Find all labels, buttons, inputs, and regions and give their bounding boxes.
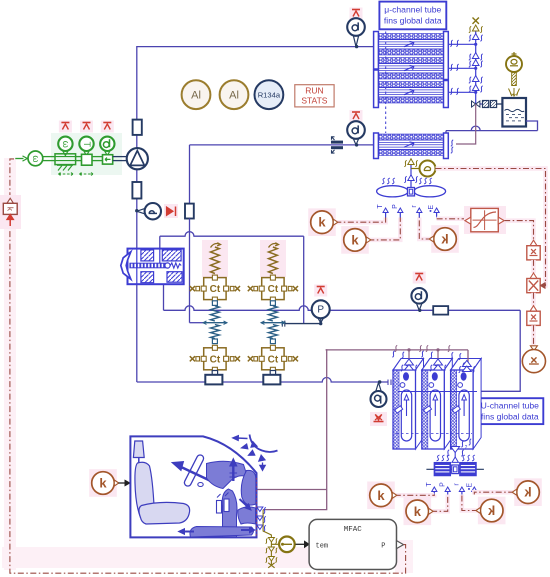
svg-text:Al: Al <box>229 89 239 101</box>
aluminium property circle 2 <box>220 80 249 109</box>
condenser core segments <box>378 34 443 104</box>
subcooler headers <box>374 133 449 159</box>
svg-text:k: k <box>441 232 449 247</box>
wire chain 2-3 <box>531 293 536 306</box>
flexible coupling <box>483 101 511 108</box>
svg-text:tem: tem <box>316 543 329 551</box>
svg-text:k: k <box>351 232 359 247</box>
svg-text:ω: ω <box>31 155 41 162</box>
tank outlet pipe <box>446 121 538 133</box>
signal box duplicate 1 <box>527 240 540 260</box>
svg-text:R134a: R134a <box>258 91 281 100</box>
thermal capacity Ct lower-right <box>248 345 298 372</box>
evaporator plate 3 <box>451 359 482 450</box>
svg-text:Ct: Ct <box>210 284 221 295</box>
svg-text:Ct: Ct <box>268 284 279 295</box>
svg-text:P: P <box>440 482 447 487</box>
svg-text:k: k <box>524 485 532 500</box>
condenser right downcomer <box>475 31 477 105</box>
cabin outlet diffusers <box>254 507 266 532</box>
heat-flow spring right <box>269 243 279 274</box>
fan port labels <box>377 204 435 212</box>
cabin temperature sensor chain <box>263 510 279 568</box>
rotary gauge T <box>79 121 93 156</box>
svg-text:P: P <box>317 304 324 315</box>
gain k blower-E <box>474 478 542 506</box>
evaporator plate 1 <box>393 359 424 450</box>
anchor right <box>263 371 280 385</box>
aluminium property circle 1 <box>182 80 211 109</box>
svg-text:RUN: RUN <box>305 86 323 96</box>
condenser 4th segment (subcooler) <box>378 134 443 156</box>
svg-text:STATS: STATS <box>301 96 327 106</box>
rear vent arrow <box>241 527 255 533</box>
check valve V1 discharge <box>133 120 142 135</box>
svg-text:•E: •E <box>428 205 435 212</box>
torque sensor box <box>76 154 92 165</box>
svg-text:T: T <box>82 142 92 148</box>
temperature probe <box>279 537 295 553</box>
shaft displacement arrows <box>59 172 94 176</box>
wire TXV-body to evaporator wall y=382 <box>137 284 394 385</box>
svg-text:P: P <box>381 543 385 551</box>
thermal capacity Ct upper-right <box>248 275 298 302</box>
svg-text:k: k <box>377 488 385 503</box>
receiver tank <box>502 98 526 127</box>
gain k fan-r <box>419 218 459 253</box>
compressor <box>127 148 148 169</box>
blower input arrows <box>432 487 477 495</box>
compressor speed limiter box <box>0 195 21 229</box>
wire P-gauge tap <box>282 321 322 327</box>
gain k blower-P <box>404 495 448 526</box>
shaft omega to bearing <box>43 157 55 161</box>
evaporator label box <box>476 398 543 424</box>
speed source omega <box>28 151 43 166</box>
flow gauge suction q <box>411 272 427 312</box>
svg-text:T: T <box>426 482 433 487</box>
fan motor sensor <box>420 161 436 177</box>
MFAC controller block <box>309 519 403 569</box>
spring-damper right <box>261 301 285 344</box>
condenser label box <box>379 2 446 30</box>
condenser right header <box>444 32 449 108</box>
svg-text:Ct: Ct <box>268 354 279 365</box>
speed demand arrow <box>15 156 27 161</box>
wire compressor suction segment <box>135 169 138 248</box>
steering wheel <box>183 454 204 487</box>
gain k blower-r <box>462 495 506 525</box>
svg-text:U-channel tube: U-channel tube <box>481 400 540 410</box>
svg-text:•E: •E <box>466 483 473 490</box>
cabin seat back <box>135 462 155 517</box>
dashboard body <box>190 461 256 537</box>
evaporator plate 2 <box>422 359 453 450</box>
air inlet cross top <box>469 18 483 33</box>
evaporator air outlet to blower <box>447 447 464 463</box>
svg-text:MFAC: MFAC <box>344 526 363 534</box>
svg-text:μ-channel tube: μ-channel tube <box>384 5 441 15</box>
expansion signal node <box>522 346 545 373</box>
run stats box <box>295 85 334 107</box>
gain k fan-T <box>308 208 385 236</box>
evaporator tie lines <box>396 392 477 434</box>
thermal capacity Ct upper-left <box>190 275 240 302</box>
bearing block <box>55 154 76 171</box>
gain k fan-P <box>341 218 400 254</box>
wire TXV sensor down to damper link <box>190 219 205 323</box>
wire fan-motor feedback <box>436 169 546 289</box>
wire chain 3-circle <box>531 325 536 346</box>
rotary gauge omega <box>58 121 72 156</box>
pressure gauge P evaporator <box>312 285 330 324</box>
humidity gauge evaporator <box>370 383 387 427</box>
pressure gauge liquid line <box>347 110 365 145</box>
heat-flow spring left <box>211 243 221 274</box>
highlight springs <box>202 240 286 277</box>
wire table to chain <box>504 221 533 241</box>
shaft to compressor <box>113 157 128 161</box>
svg-text:ω: ω <box>61 141 71 148</box>
TXV spool valve block <box>121 249 184 285</box>
wire fan-E to table <box>437 217 465 222</box>
dashboard vent arrow up <box>230 459 238 482</box>
wire chain 1-2 <box>531 260 536 273</box>
pressure gauge top (discharge) <box>347 8 365 47</box>
subcooler bypass line (brown) <box>451 104 476 153</box>
svg-text:Ct: Ct <box>210 354 221 365</box>
condenser internal moist-air dashed line <box>385 32 387 134</box>
fan riser with valves <box>404 159 419 188</box>
cabin right edge dotted <box>256 478 258 536</box>
expansion valve sensor block <box>185 204 194 219</box>
cabin return air riser <box>257 350 327 510</box>
fan input arrows <box>383 208 439 218</box>
air valve triangles on downcomer <box>469 34 483 93</box>
condenser fan blades <box>377 186 446 197</box>
gain k blower-T <box>367 482 434 510</box>
probe to MFAC arrow <box>296 541 310 547</box>
pipe union symbol on liquid line <box>331 137 343 153</box>
spring-damper left <box>203 301 227 344</box>
highlight mint behind shaft train <box>51 133 122 175</box>
feedback wire MFAC to speed control <box>10 159 406 573</box>
defroster spray <box>233 435 278 471</box>
steering column arrow <box>172 462 223 487</box>
lookup table f(x) <box>464 206 506 234</box>
highlight band bottom feedback wire <box>2 158 413 573</box>
refrigerant R134a circle <box>255 80 284 109</box>
check valve V2 suction <box>132 182 141 199</box>
svg-text:P: P <box>392 204 399 209</box>
wire block-top to riser y=236 <box>160 232 304 324</box>
svg-text:fins global data: fins global data <box>384 16 442 26</box>
svg-text:T: T <box>377 204 384 209</box>
evaporator air supply line <box>326 345 468 366</box>
wire compressor top to valve <box>136 135 138 149</box>
evap plate top marks <box>392 351 461 360</box>
console vents <box>217 493 230 514</box>
blower <box>426 455 484 476</box>
foot vent arrow <box>240 499 252 510</box>
cabin seat base <box>139 502 190 524</box>
thermal capacity Ct lower-left <box>190 345 240 372</box>
wire compressor discharge up and across top <box>137 45 374 120</box>
plate1 air inlet valve <box>401 359 417 371</box>
fan draft marks <box>382 178 432 184</box>
signal box duplicate 2 <box>527 306 540 326</box>
floor return arrow <box>179 529 195 535</box>
svg-text:k: k <box>99 476 107 491</box>
rotary gauge q <box>100 121 114 156</box>
cabin shell <box>130 436 256 537</box>
cabin gain k <box>89 469 130 497</box>
evap plate bottom marks <box>461 439 471 451</box>
enthalpy sensor suction <box>137 203 178 219</box>
plate2 air inlet valve <box>430 359 446 371</box>
plate3 air inlet valve <box>459 361 475 373</box>
orifice on suction line <box>433 306 448 315</box>
signal box multiply <box>527 273 540 293</box>
svg-text:k: k <box>318 215 326 230</box>
tank level gauge <box>506 52 522 96</box>
svg-text:Al: Al <box>191 89 201 101</box>
blower port labels <box>426 482 474 490</box>
svg-text:2: 2 <box>465 445 468 451</box>
wire condenser outlet to TXV (y=145) <box>190 143 374 203</box>
cabin headrest <box>133 441 144 463</box>
anchor left <box>205 371 222 385</box>
svg-text:fins global data: fins global data <box>481 411 539 421</box>
condenser left header <box>374 32 379 108</box>
svg-text:k: k <box>414 504 422 519</box>
speed sensor box <box>92 155 113 164</box>
condenser right-side air links <box>448 40 477 94</box>
tank inlet pipe <box>472 101 482 107</box>
wire evaporator suction line y=310 <box>164 284 521 391</box>
svg-text:k: k <box>487 503 495 518</box>
